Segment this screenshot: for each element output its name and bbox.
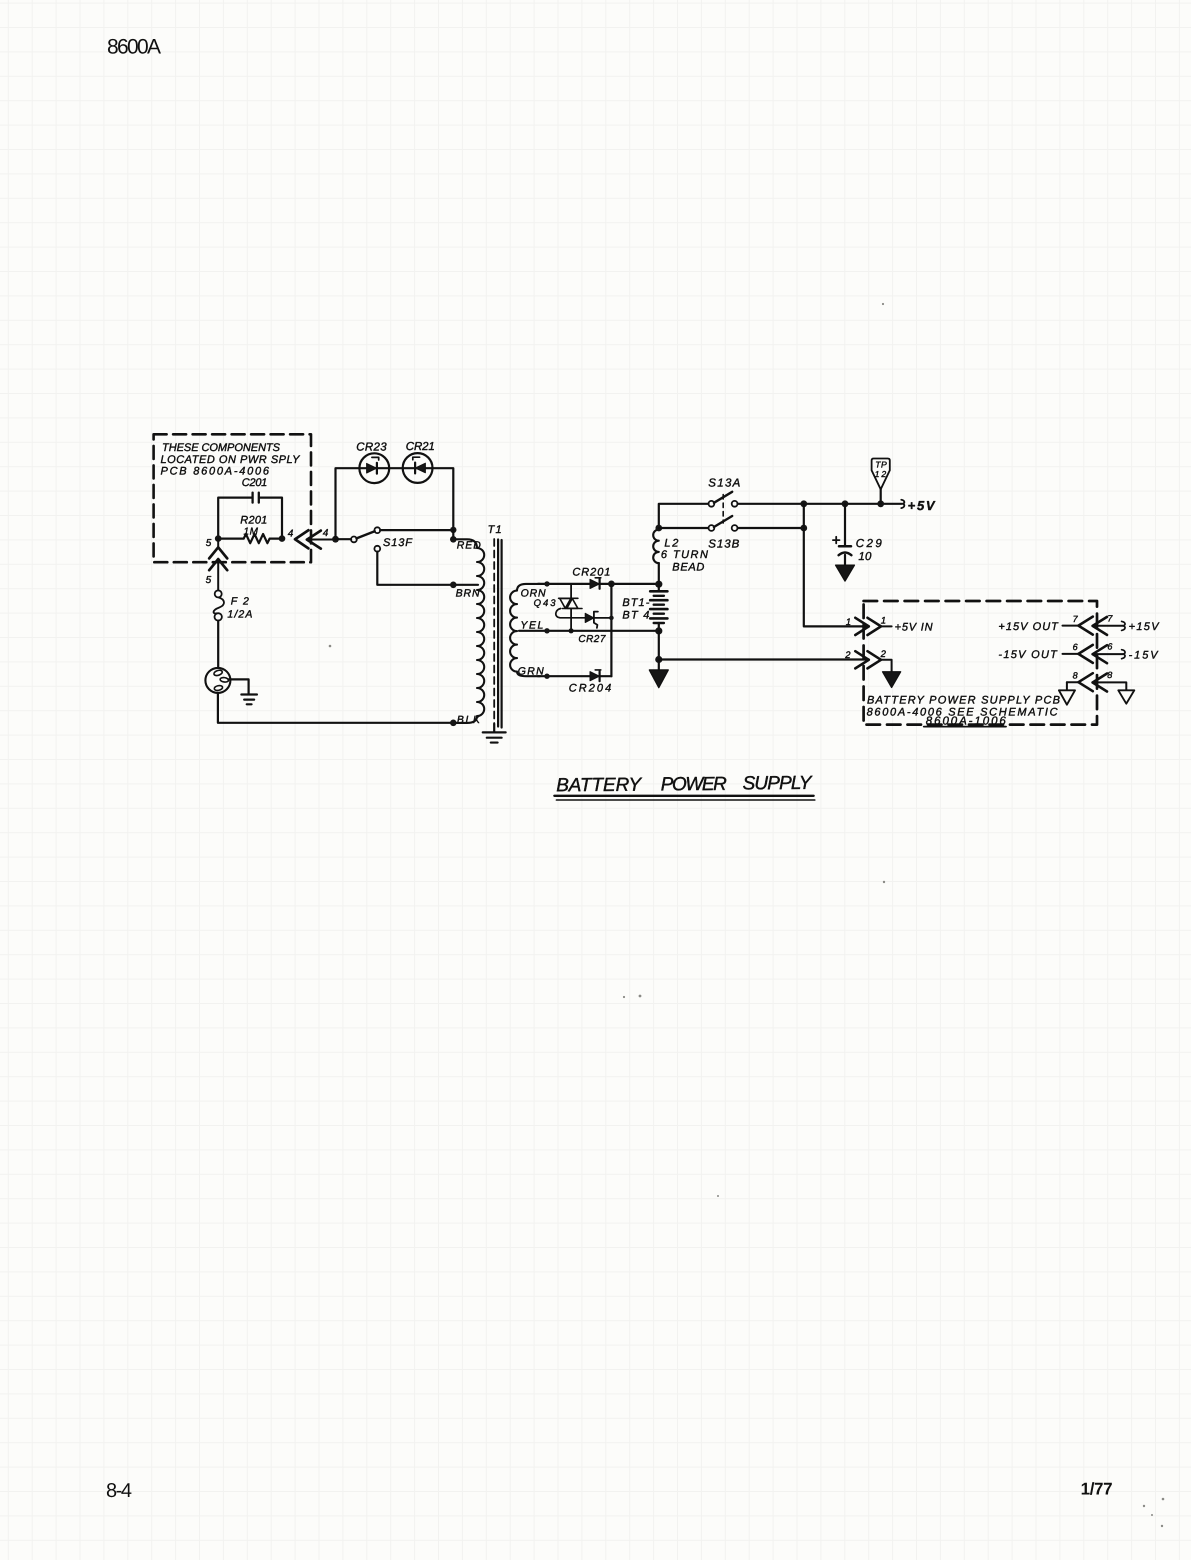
inductor L2 6 turn bead [653,530,708,585]
diode CR201 [572,567,656,589]
wire up to CR23/CR21 branch [336,468,454,539]
transformer T1 primary winding [457,524,502,723]
svg-text:+15V: +15V [1129,621,1161,633]
svg-text:BT1-: BT1- [622,597,649,609]
box text battery power supply pcb see schematic [867,695,1060,728]
diode CR27 [556,609,614,645]
svg-text:POWER: POWER [661,774,727,795]
AC plug P1 [205,621,230,693]
svg-text:T1: T1 [488,524,502,536]
svg-text:Q43: Q43 [534,598,557,609]
svg-text:CR204: CR204 [569,683,612,695]
node A junction (S13F pole feed) [332,536,339,543]
capacitor C29 10 [833,500,882,564]
svg-text:BEAD: BEAD [672,561,704,573]
svg-text:1/77: 1/77 [1081,1480,1113,1499]
svg-text:6: 6 [1073,642,1078,652]
ground at pin 8 right [1118,690,1134,703]
svg-text:5: 5 [206,575,212,586]
svg-text:8600A-1006: 8600A-1006 [926,715,1007,727]
node RED junction [450,527,481,552]
mechanical link S13A-S13B [722,495,724,524]
connector pin 4 chevrons [295,528,333,549]
node BLK junction [450,714,481,726]
ground at pin 8 left [1059,690,1075,704]
svg-text:THESE COMPONENTS: THESE COMPONENTS [162,442,281,454]
svg-text:SUPPLY: SUPPLY [742,773,812,794]
node 4 junction [279,529,294,542]
node ORN tap [521,581,590,599]
svg-text:8: 8 [1107,670,1112,680]
underline 8600A-1006 [924,726,1006,728]
node GRN tap [518,665,590,679]
wire S13B output [738,525,808,532]
svg-text:6 TURN: 6 TURN [661,549,708,561]
node BRN junction [450,582,480,600]
dashed box: components located on pwr sply pcb [154,434,311,562]
switch S13F [338,527,453,585]
svg-text:C29: C29 [856,538,883,550]
svg-text:BT 4: BT 4 [622,609,649,621]
date 1/77 [1081,1480,1113,1499]
ground at C29 [836,565,855,581]
svg-text:CR201: CR201 [572,567,610,579]
svg-text:4: 4 [323,528,329,539]
svg-text:S13A: S13A [708,477,740,489]
switch S13B [708,516,739,551]
wire down to +5V IN [804,504,869,627]
fuse F2 1/2A [214,559,253,621]
node rail junction 1 [800,500,807,507]
svg-text:+15V OUT: +15V OUT [998,621,1059,633]
node battery minus junction [655,656,662,663]
svg-text:R201: R201 [240,515,267,527]
svg-text:12: 12 [875,469,887,479]
wire +5V rail [738,503,902,505]
earth ground at plug [229,679,257,704]
svg-text:+5V: +5V [908,498,936,513]
ground at battery [649,660,668,688]
connector pin 2 [844,649,891,671]
svg-text:1: 1 [881,616,886,627]
ground at pin 2 [883,672,901,688]
svg-text:BATTERY: BATTERY [556,775,642,797]
svg-text:1: 1 [846,617,851,628]
note text THESE COMPONENTS LOCATED ON PWR SPLY PCB 8600A-4006 [161,442,301,478]
wire battery minus to pin 2 [659,658,869,660]
diode CR21 [403,441,435,483]
wire plug to BLK [218,693,451,723]
speckles [329,303,1165,1527]
svg-text:CR21: CR21 [406,441,435,453]
ground at T1 core [483,724,506,743]
wire CR201 node to CR204 [610,584,612,676]
svg-text:CR27: CR27 [578,634,605,645]
net -15V OUT pin 6 [998,642,1159,664]
svg-text:+5V IN: +5V IN [895,622,933,634]
resistor R201 1M [218,515,281,544]
net +5V [901,498,936,513]
diode CR204 [569,670,612,695]
svg-text:10: 10 [858,551,872,563]
svg-text:8-4: 8-4 [106,1480,132,1502]
page number 8-4 [106,1480,132,1502]
svg-text:C201: C201 [242,477,267,489]
svg-text:-15V: -15V [1129,649,1160,661]
svg-text:CR23: CR23 [356,441,387,453]
transformer T1 core [494,539,501,728]
transistor Q43 [534,584,582,634]
connector pin 1 +5V IN [846,616,933,635]
title BATTERY POWER SUPPLY [556,773,813,796]
svg-text:S13B: S13B [708,539,739,551]
node CR201 output junction [608,581,615,588]
svg-text:8600A: 8600A [107,36,161,59]
svg-text:S13F: S13F [383,537,413,549]
dashed box: battery power supply pcb [864,601,1097,725]
svg-text:2: 2 [880,649,887,660]
wire battery to ground [658,631,660,660]
svg-text:1/2A: 1/2A [227,608,252,620]
net +15V OUT pin 7 [998,613,1160,635]
node L2 top junction [655,525,708,532]
svg-text:5: 5 [206,538,212,549]
transformer T1 secondary winding [510,584,540,676]
capacitor C201 [218,477,282,539]
node 5 junction [206,535,222,549]
svg-text:LOCATED ON PWR SPLY: LOCATED ON PWR SPLY [161,454,301,466]
wire S13A left leg [659,504,709,528]
connector pin 5 chevrons [206,539,228,586]
svg-text:L2: L2 [664,537,678,549]
diode CR23 [356,441,389,483]
title underline [554,796,814,800]
svg-text:-15V OUT: -15V OUT [998,649,1058,661]
connector pin 8 [1067,670,1126,692]
svg-text:8: 8 [1073,670,1078,680]
battery BT1-BT4 [622,581,667,635]
node YEL tap [519,620,657,634]
svg-text:6: 6 [1107,642,1112,652]
switch S13A [708,477,740,506]
svg-text:4: 4 [288,529,294,540]
test point TP12 [872,459,890,508]
svg-text:2: 2 [844,650,851,661]
page header 8600A [107,36,161,59]
svg-text:BATTERY POWER SUPPLY PCB: BATTERY POWER SUPPLY PCB [867,695,1060,707]
